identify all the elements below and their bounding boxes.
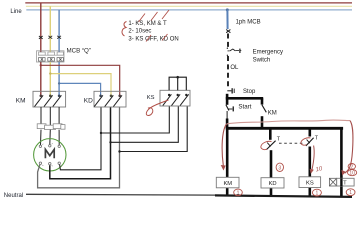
svg-text:2- 10sec: 2- 10sec xyxy=(128,29,151,35)
svg-text:3: 3 xyxy=(278,165,281,171)
svg-text:KM: KM xyxy=(16,97,26,104)
svg-text:T: T xyxy=(315,136,319,142)
svg-text:MCB “Q”: MCB “Q” xyxy=(67,48,91,55)
svg-text:1ph MCB: 1ph MCB xyxy=(236,20,261,26)
svg-text:Line: Line xyxy=(10,9,22,15)
svg-text:1: 1 xyxy=(349,190,352,196)
svg-text:KM: KM xyxy=(223,181,232,187)
svg-text:10: 10 xyxy=(349,171,355,177)
svg-text:1: 1 xyxy=(316,191,319,197)
svg-text:OL: OL xyxy=(230,65,239,71)
svg-text:KS: KS xyxy=(306,180,314,186)
svg-text:Switch: Switch xyxy=(253,57,271,63)
svg-text:Neutral: Neutral xyxy=(4,193,23,199)
svg-text:T: T xyxy=(343,181,347,187)
svg-text:Stop: Stop xyxy=(243,89,256,95)
svg-text:Emergency: Emergency xyxy=(253,50,283,56)
svg-text:1: 1 xyxy=(237,190,240,196)
svg-text:Start: Start xyxy=(238,104,251,111)
svg-text:2: 2 xyxy=(350,164,353,170)
svg-text:3- KS OFF, KD ON: 3- KS OFF, KD ON xyxy=(128,37,178,43)
svg-text:KM: KM xyxy=(268,110,277,116)
svg-text:10: 10 xyxy=(315,166,323,173)
svg-text:KS: KS xyxy=(147,95,155,101)
svg-text:T: T xyxy=(277,136,281,142)
svg-text:KD: KD xyxy=(269,181,277,187)
svg-text:KD: KD xyxy=(84,97,93,104)
svg-text:1- KS, KM & T: 1- KS, KM & T xyxy=(128,21,167,27)
